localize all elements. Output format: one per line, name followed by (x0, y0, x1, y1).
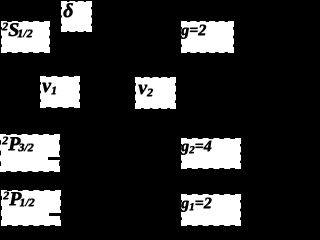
g-factor label g=2 (182, 22, 233, 52)
level label 2P1/2 (2, 191, 60, 225)
level label 2P3/2 (1, 135, 59, 171)
transition label nu2 (136, 78, 175, 108)
transition label nu1 (41, 77, 79, 107)
g-factor label g2=4 (182, 139, 240, 168)
level line fragment P1/2 (49, 213, 61, 216)
splitting label delta (62, 2, 91, 31)
g-factor label g1=2 (182, 195, 240, 225)
level label 2S1/2 (2, 22, 49, 52)
level line fragment P3/2 (48, 157, 60, 160)
